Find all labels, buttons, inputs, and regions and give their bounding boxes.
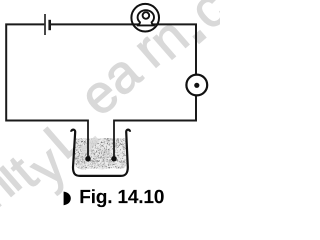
watermark "nityLearn.c" diagonal <box>0 0 229 208</box>
battery cell: short thick plate <box>48 20 51 30</box>
bulb glass circle <box>131 4 159 32</box>
meter body <box>186 75 207 96</box>
beaker outline <box>71 130 130 176</box>
bulb filament body <box>137 10 155 25</box>
meter center dot <box>194 83 199 88</box>
electrolyte liquid with speckle <box>74 138 127 175</box>
bulb filament head loop <box>143 12 150 19</box>
wire right loop: battery to bulb to right corner, down through meter, bottom-right run <box>51 24 196 120</box>
electrode tip dot right <box>111 156 117 162</box>
wire left loop: battery to left corner, down, bottom-left run <box>6 24 88 120</box>
battery cell: long plate <box>44 14 46 35</box>
caption marker <box>64 192 71 206</box>
electrode left <box>87 120 89 159</box>
electrode right <box>113 120 115 159</box>
electrode tip dot left <box>85 156 91 162</box>
watermark fragment over beaker liquid <box>80 136 100 154</box>
caption text Fig. 14.10 <box>80 189 163 207</box>
